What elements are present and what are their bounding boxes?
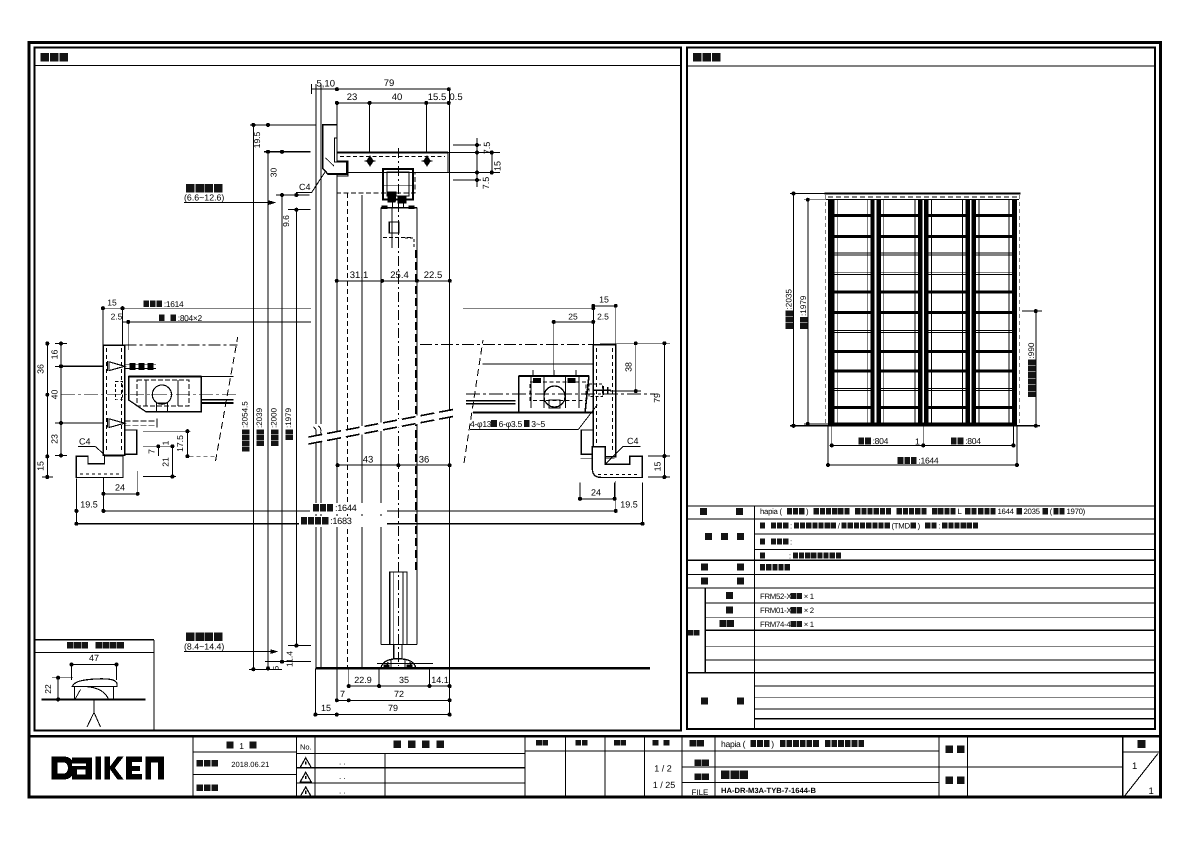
pivot foot dome: [381, 659, 416, 669]
screw2 funnel: [108, 418, 125, 428]
sill cap left hatch: [75, 690, 80, 700]
ext 137.7 for 24: [137, 471, 139, 494]
front stile bar 2: [870, 200, 874, 426]
spec hline hikite bottom: [687, 574, 1155, 576]
tick bottom 1979: [288, 645, 311, 647]
detail box title 納まり図: [96, 642, 124, 649]
screw2 shaft bottom: [125, 424, 157, 426]
title vline bukken label right: [966, 736, 968, 797]
svg-text:3~5: 3~5: [531, 419, 545, 429]
svg-text:72: 72: [394, 689, 404, 699]
tick top 1979: [288, 209, 311, 211]
hanger stem left: [392, 200, 394, 209]
svg-text:30: 30: [269, 168, 279, 178]
label 見切外寸 blobs: [242, 429, 250, 451]
title 第 blob: [227, 741, 234, 748]
svg-text:22.5: 22.5: [424, 270, 443, 281]
spec remark sub hline 3: [754, 708, 1155, 710]
ext 580 for 24r: [579, 483, 581, 499]
screw2 axis: [61, 422, 104, 424]
front ext right outer: [1016, 426, 1018, 465]
roller bracket inner: [387, 172, 409, 196]
dim vline 38: [635, 343, 637, 391]
spec hline katashiki bottom: [687, 518, 1155, 520]
section view title band line: [35, 65, 682, 67]
detail box right: [153, 640, 155, 731]
hidden edge vertical dashed: [347, 193, 349, 668]
tick y172.5 ext: [448, 172, 500, 174]
front tick 2035 top: [790, 193, 825, 195]
svg-text:. .: . .: [339, 772, 346, 781]
wall line left of pair lower: [315, 436, 317, 668]
right pivot housing top thick: [519, 375, 589, 377]
svg-text::804: :804: [873, 436, 889, 446]
svg-text:C4: C4: [79, 437, 91, 447]
dim line 25 right: [554, 321, 594, 323]
spec hikite content: [760, 564, 790, 570]
svg-text:15: 15: [321, 703, 331, 713]
jamb connector dashed box: [116, 382, 123, 400]
label 扉高 blobs: [285, 429, 293, 440]
svg-text:(8.4~14.4): (8.4~14.4): [184, 642, 224, 652]
svg-text:16: 16: [50, 350, 60, 360]
svg-text:2.5: 2.5: [111, 311, 123, 321]
front left dashed trim: [824, 195, 826, 426]
dim vline 7: [157, 446, 159, 456]
spec parts sub hline 1: [705, 602, 1155, 604]
dim line 1614 left segment: [103, 307, 311, 309]
ext 426.3 to rail: [425, 103, 427, 153]
trim top dashed ext: [190, 455, 217, 457]
front panel edge line 1: [836, 200, 838, 426]
title vline name content right: [938, 736, 940, 797]
front view title 正面図: [693, 53, 720, 62]
screw2 shaft top: [125, 420, 157, 422]
front label 扉幅804 right: [951, 436, 981, 446]
tick bottom 2000: [265, 661, 311, 663]
spec parts sub hline 5: [705, 659, 1155, 661]
title warn triangle 3: [300, 787, 311, 797]
left trim hatch dash: [80, 473, 120, 475]
svg-text:1 / 2: 1 / 2: [654, 764, 672, 774]
svg-text:5: 5: [272, 665, 281, 670]
title vline rev cell right: [295, 736, 297, 797]
svg-text:C4: C4: [627, 436, 639, 446]
svg-text::2039: :2039: [255, 407, 264, 428]
tick y152.5 ext: [448, 152, 500, 154]
right pivot housing outline: [519, 376, 589, 412]
spec part row3: [760, 620, 814, 629]
svg-text:23: 23: [50, 434, 60, 444]
spec label 引: [701, 564, 708, 571]
dim line 1614 right segment: [463, 307, 593, 309]
front panel edge line 5: [930, 200, 932, 426]
svg-text:hapia (: hapia (: [760, 507, 782, 516]
svg-text:24: 24: [115, 483, 125, 493]
dim line 804x2 left segment: [123, 321, 312, 323]
svg-text::1979: :1979: [799, 295, 808, 316]
ext 642.5 down: [642, 483, 644, 524]
svg-text:1: 1: [915, 436, 920, 446]
title vline no col right: [314, 736, 316, 797]
front panel 1 rails: [834, 214, 870, 409]
svg-text::1614: :1614: [164, 299, 184, 309]
wall line right of pair lower: [320, 436, 322, 668]
ext 615.7 up: [615, 306, 617, 345]
leader lower adjustment: [184, 651, 277, 653]
title 見積: [695, 759, 709, 766]
spec row1 content: [760, 507, 1086, 516]
dim vline 30: [279, 152, 281, 195]
spec label 考: [737, 698, 744, 705]
svg-text::2035: :2035: [785, 289, 794, 310]
svg-text::: :: [790, 521, 792, 530]
tick y431.2: [143, 430, 190, 432]
title 部屋b: [957, 777, 965, 785]
right pivot socket circle: [544, 386, 565, 407]
front panel edge line 4: [914, 200, 916, 426]
spec label 錠: [701, 578, 708, 585]
spec finish row2: [760, 537, 792, 546]
front dim vline 1979: [807, 200, 809, 424]
title warn mark 1: [305, 761, 307, 764]
dim line 1644: [103, 510, 615, 512]
pivot centerline right: [466, 393, 655, 395]
svg-text:19.5: 19.5: [620, 500, 638, 510]
title warn triangle 2: [300, 772, 311, 782]
svg-text::804: :804: [965, 436, 981, 446]
svg-text:No.: No.: [300, 743, 312, 752]
spec remark sub hline 1: [754, 685, 1155, 687]
detail break mark: [87, 699, 101, 727]
tick y391.1 right: [610, 390, 641, 392]
roller dark blob left: [388, 192, 396, 202]
right door edge line 2: [466, 403, 516, 405]
svg-text::990: :990: [1027, 342, 1036, 358]
break band white fill: [309, 408, 456, 445]
front right dashed trim: [1019, 195, 1021, 426]
head trim foot bottom thick: [328, 173, 347, 175]
pivot foot dark right: [407, 665, 413, 669]
dim vline 15: [491, 153, 493, 173]
front tick 1979 bottom: [804, 423, 828, 425]
front stile bar 1: [828, 200, 834, 426]
spec vline parts sub: [704, 588, 706, 673]
spec sub label 見切: [720, 620, 735, 627]
svg-text:40: 40: [50, 390, 60, 400]
svg-text:× 2: × 2: [804, 606, 814, 615]
front view pane border: [687, 48, 1155, 730]
svg-text:79: 79: [388, 703, 398, 713]
track screw symbol right: [422, 156, 433, 167]
tick col1 y366: [55, 365, 67, 367]
svg-text:47: 47: [89, 653, 99, 663]
dim vline 79 right: [663, 343, 665, 477]
ext 614.6 for 24r: [614, 483, 616, 499]
left pivot socket circle: [152, 385, 171, 404]
spec hline finish bottom: [687, 559, 1155, 561]
frame face vertical: [336, 103, 338, 668]
svg-text:4-φ13: 4-φ13: [470, 419, 492, 429]
front stile bar 4: [918, 200, 922, 426]
tick col2 y477: [42, 476, 53, 478]
title 三面図: [721, 771, 748, 780]
dim line 31.1-25.4-22.5: [337, 280, 450, 282]
title vline create right: [643, 736, 645, 797]
svg-text:FRM01-X2: FRM01-X2: [760, 606, 795, 615]
right jamb horizontal screw: [593, 386, 612, 395]
right connector box: [589, 384, 603, 397]
right channel 1b: [543, 376, 545, 408]
tick y145: [453, 144, 481, 146]
front door bottom line: [790, 425, 1040, 427]
svg-text:1 / 25: 1 / 25: [653, 780, 676, 790]
door panel right edge dashed overlay: [415, 250, 417, 570]
spec parts sub hline 3: [705, 629, 1155, 631]
break squiggle on wall line 2: [318, 426, 323, 436]
svg-text:7: 7: [340, 689, 345, 699]
svg-text::2054.5: :2054.5: [241, 401, 250, 428]
door bottom edge: [381, 644, 417, 646]
title vline approve right: [564, 736, 566, 797]
screw label leader: [578, 405, 597, 430]
title 版 blob: [250, 741, 257, 748]
tick top 2039: [264, 151, 311, 153]
front label 枠外寸1644: [898, 456, 939, 466]
dim line 24 right: [580, 498, 615, 500]
front label 枠外寸 blobs: [786, 310, 794, 329]
C4 top underline: [296, 192, 312, 194]
front top band dashed: [828, 196, 1017, 198]
svg-text:23: 23: [347, 92, 358, 103]
title 作成: [614, 740, 626, 746]
svg-text:× 1: × 1: [804, 620, 814, 629]
left jamb frame member: [103, 345, 124, 455]
left break diagonal dashed: [216, 337, 238, 461]
section view pane border: [35, 48, 682, 731]
svg-text:2018.06.21: 2018.06.21: [231, 760, 269, 769]
svg-text:1: 1: [161, 440, 171, 445]
title name hline 3: [682, 782, 939, 784]
title vline scale right: [681, 736, 683, 797]
dim line 15 right top: [593, 305, 615, 307]
spec label 仕: [705, 533, 712, 540]
spec finish sub hline 1: [754, 533, 1155, 535]
tick y456.1 right: [648, 455, 670, 457]
screw1 shaft top: [125, 363, 156, 365]
tick at 311 top: [310, 84, 312, 94]
title vline name label right: [714, 736, 716, 797]
title block top line: [29, 735, 1161, 737]
C4 top leader: [312, 169, 328, 193]
svg-text:36: 36: [419, 455, 430, 466]
detail box top: [35, 639, 155, 641]
title warn mark 2: [305, 776, 307, 779]
break squiggle on wall line 1: [314, 427, 319, 437]
title page header hline: [1123, 751, 1161, 753]
svg-text:40: 40: [392, 92, 403, 103]
front panel edge line 3: [883, 200, 885, 426]
ext 429.5 below floor: [429, 668, 431, 686]
title 図名: [695, 773, 709, 780]
front view title band line: [687, 65, 1155, 67]
title 頁: [1138, 740, 1146, 748]
svg-text:HA-DR-M3A-TYB-7-1644-B: HA-DR-M3A-TYB-7-1644-B: [721, 786, 816, 795]
screw2 end tick: [156, 419, 158, 428]
title no col hlines 1: [296, 753, 525, 755]
label 上下調整 blobs upper: [186, 184, 222, 193]
svg-text:15: 15: [599, 295, 609, 305]
hanger plate left tab: [382, 206, 388, 210]
title vline logo cell right: [192, 736, 194, 797]
front ext left inner: [831, 426, 833, 446]
left pivot inner v2: [177, 380, 179, 406]
spec label 品番: [688, 630, 700, 636]
right pivot screw up 1: [532, 370, 534, 376]
front panel 4 rails: [976, 214, 1012, 409]
front ext centre: [922, 426, 924, 446]
svg-text::: :: [789, 551, 791, 560]
svg-text:1: 1: [1132, 761, 1137, 772]
wall centerline left: [103, 344, 237, 346]
svg-text:1: 1: [239, 741, 244, 751]
svg-text:15: 15: [107, 298, 117, 308]
dim vline 17.5: [186, 431, 188, 456]
svg-text:2.5: 2.5: [597, 311, 609, 321]
front stile bar 8: [1012, 200, 1017, 426]
right pivot inner dashed box: [530, 382, 586, 401]
tick 22 top: [52, 677, 73, 679]
left jamb inner dash 2: [121, 348, 123, 452]
front dim vline 2035: [793, 194, 795, 426]
DAIKEN logo: [52, 757, 164, 780]
svg-text:7.5: 7.5: [481, 177, 491, 190]
front stile bar 5: [924, 200, 928, 426]
title vline page col left: [1122, 736, 1124, 797]
svg-text:21: 21: [161, 457, 171, 467]
title no col hlines 3: [296, 782, 525, 784]
tick col1 y455: [55, 455, 67, 457]
ext 103.4 to dims: [102, 478, 104, 511]
svg-text:): ): [771, 739, 774, 749]
right channel 1 dark top: [533, 378, 541, 383]
svg-text:2035: 2035: [1024, 507, 1041, 516]
svg-text:C4: C4: [299, 182, 311, 192]
left door edge line 1: [201, 399, 233, 401]
sill cap right leg: [112, 687, 114, 700]
svg-text::1644: :1644: [335, 503, 357, 513]
svg-text:19.5: 19.5: [252, 131, 262, 148]
svg-text:× 1: × 1: [804, 592, 814, 601]
dim line 5-10-79 top: [311, 88, 450, 90]
svg-text::804×2: :804×2: [178, 313, 203, 323]
spec finish sub hline 2: [754, 549, 1155, 551]
svg-text:24: 24: [591, 488, 601, 498]
detail box band: [35, 652, 155, 654]
spec part row1: [760, 592, 814, 601]
right jamb step block: [581, 430, 593, 454]
door bracket detail: [405, 238, 414, 247]
dim line 43-36: [338, 464, 450, 466]
ext 47 right: [116, 665, 118, 681]
sill cap left leg: [74, 687, 76, 700]
front label 手じゃくり高さ blobs: [1028, 359, 1036, 397]
svg-text:35: 35: [399, 675, 409, 685]
screw1 thread blob 2: [139, 363, 145, 370]
screw label underline: [470, 429, 578, 431]
right pivot housing bottom thick: [473, 412, 593, 414]
spec label げ: [737, 533, 744, 540]
ext 593.3 up: [592, 306, 594, 345]
spec remark sub hline 4: [754, 718, 1155, 720]
front door bottom bar: [828, 423, 1017, 426]
title 部屋: [946, 777, 954, 785]
C4 left leader: [96, 447, 123, 472]
label 枠外寸1644: [313, 503, 357, 513]
wall line right of pair: [320, 89, 322, 424]
spec remark sub hline 2: [754, 697, 1155, 699]
svg-text:79: 79: [384, 78, 395, 89]
bottom rod inner right: [402, 572, 404, 644]
front stile bar 6: [966, 200, 970, 426]
svg-text:. .: . .: [339, 787, 346, 796]
right pivot screw up 3: [575, 370, 577, 376]
front panel edge line 6: [962, 200, 964, 426]
bottom pivot rod: [390, 572, 407, 644]
svg-text:25.4: 25.4: [390, 270, 409, 281]
right jamb bottom double: [580, 457, 614, 459]
title history inner vline: [384, 754, 386, 797]
title no col hlines 2: [296, 767, 525, 769]
label 1644 bg: [310, 503, 387, 514]
svg-text:15: 15: [36, 461, 46, 471]
pivot centerline left: [61, 394, 238, 396]
front panel 2 rails: [881, 214, 918, 409]
leader upper adjustment: [184, 202, 275, 204]
svg-text:22.9: 22.9: [354, 675, 372, 685]
label 上下調整 blobs lower: [186, 633, 222, 642]
right door edge line 1: [466, 400, 516, 402]
spec parts sub hline 2: [705, 617, 1155, 619]
label 枠外寸 blobs: [256, 429, 264, 446]
spec label 手: [737, 564, 744, 571]
C4 right underline: [623, 445, 641, 447]
dim vline 2039: [267, 152, 269, 669]
door inner vertical upper: [391, 208, 393, 248]
spec table top line: [687, 505, 1155, 507]
label 扉幅804x2: [159, 313, 202, 323]
svg-text:7.5: 7.5: [482, 142, 492, 155]
title 縮尺: [653, 740, 670, 746]
roller bracket outer: [383, 169, 413, 200]
title name content: [721, 739, 864, 749]
dim line 23-40-15.5 row2: [337, 102, 450, 104]
C4 right leader: [597, 446, 624, 472]
dim vline 21: [171, 446, 173, 476]
left door edge line 2: [201, 402, 233, 404]
title warn triangle 1: [300, 758, 311, 768]
tick y477 right: [648, 476, 670, 478]
front ext left outer: [827, 426, 829, 465]
svg-text:79: 79: [652, 393, 662, 403]
break diagonal lower: [309, 416, 456, 444]
svg-text:(6.6~12.6): (6.6~12.6): [184, 193, 224, 203]
right pivot screw up 2: [553, 370, 555, 376]
tick top 2054.5: [250, 124, 317, 126]
dim vline 7.5 pair: [476, 138, 478, 187]
ext 336.8 below floor: [336, 668, 338, 700]
front panel 3 rails: [928, 214, 965, 409]
